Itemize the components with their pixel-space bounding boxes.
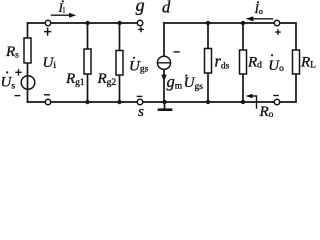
svg-text:d: d [162, 0, 171, 17]
svg-text:s: s [138, 104, 144, 119]
svg-text:g: g [136, 0, 145, 15]
